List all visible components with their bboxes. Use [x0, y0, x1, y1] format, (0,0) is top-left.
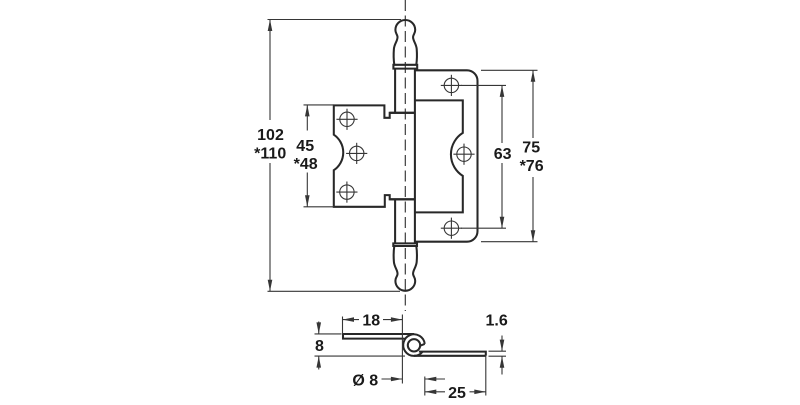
svg-text:75: 75	[522, 139, 540, 156]
svg-text:25: 25	[448, 385, 466, 400]
svg-text:*110: *110	[254, 146, 286, 163]
svg-text:63: 63	[494, 146, 512, 163]
svg-text:*76: *76	[520, 158, 544, 175]
svg-text:1.6: 1.6	[485, 312, 507, 329]
svg-text:*48: *48	[294, 156, 318, 173]
svg-text:Ø 8: Ø 8	[352, 372, 378, 389]
svg-text:45: 45	[296, 138, 314, 155]
svg-text:8: 8	[315, 338, 324, 355]
svg-text:18: 18	[362, 312, 380, 329]
svg-text:102: 102	[257, 127, 284, 144]
